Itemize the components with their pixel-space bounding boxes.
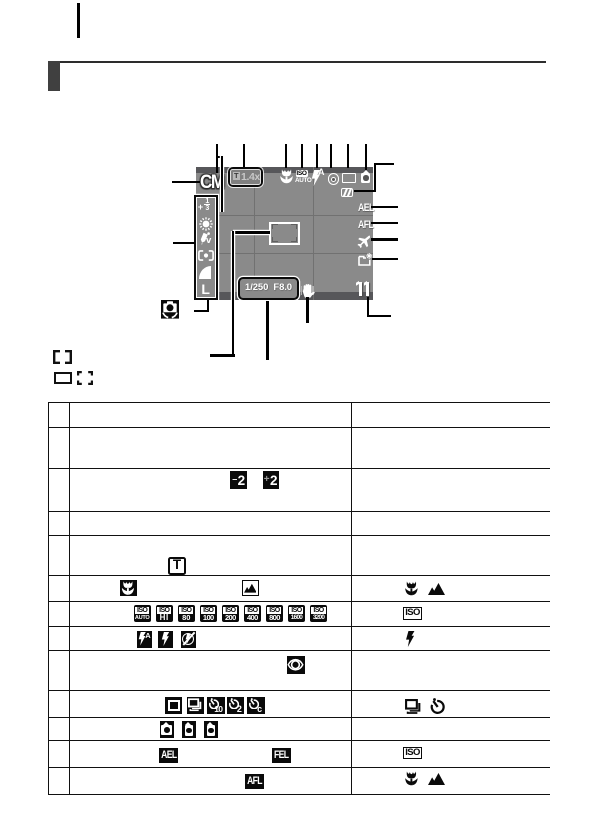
callout battery h2: [374, 163, 394, 165]
callout left-box h: [173, 242, 195, 244]
callout hand v: [306, 297, 309, 323]
ISO 80 box: [178, 605, 195, 622]
header square: [48, 61, 60, 92]
ISO HI box: [156, 605, 173, 622]
orientation box 2: [182, 721, 196, 738]
time zone plane icon: [357, 235, 371, 249]
left function column: [194, 195, 219, 300]
callout top v8: [365, 144, 367, 170]
zoom indicator T1.4x: [228, 167, 263, 188]
callout grid branch v: [221, 156, 223, 212]
callout AEL h: [371, 206, 398, 208]
drive single icon: [342, 173, 356, 183]
table row line 1: [48, 402, 550, 403]
callout shutter v: [266, 301, 268, 360]
flash on box: [158, 631, 173, 649]
mode icon CM: [200, 172, 221, 194]
table left border: [48, 402, 49, 795]
flash auto box: [137, 631, 152, 649]
macro icon: [280, 169, 293, 185]
ISO 800 box: [266, 605, 283, 622]
drive single box: [165, 697, 182, 715]
burst icon right: [405, 699, 422, 714]
callout top v1: [216, 144, 218, 173]
timer 2 box: [227, 697, 244, 715]
flash auto icon: [311, 170, 321, 186]
infinity mountain right row13: [428, 772, 445, 786]
callout AF v: [232, 231, 234, 356]
timer custom box: [247, 697, 265, 715]
callout AF end h: [210, 354, 235, 356]
callout folder h: [372, 258, 398, 260]
callout AFL h: [371, 222, 398, 224]
shots remaining 11: [359, 282, 362, 296]
orientation box 3: [204, 721, 218, 738]
red-eye icon: [328, 173, 340, 185]
shake warning hand: [301, 286, 303, 295]
macro tulip right row6: [405, 581, 418, 597]
callout top v7: [347, 144, 349, 168]
callout 11 h: [367, 315, 391, 317]
auto-rotate icon: [161, 300, 179, 319]
red-eye box: [287, 656, 305, 674]
table row line 11: [48, 717, 550, 718]
text line2 rect icon: [54, 372, 72, 385]
table row line 10: [48, 690, 550, 691]
ISO 400 box: [244, 605, 261, 622]
white balance sun icon: [199, 217, 213, 231]
callout top v5: [316, 144, 318, 168]
compression icon: [199, 266, 211, 279]
header rule: [48, 61, 546, 63]
AFL box: [245, 774, 264, 789]
timer 10 box: [207, 697, 225, 715]
callout grid branch h: [216, 156, 224, 158]
table col line B: [351, 402, 352, 795]
table row line 6: [48, 575, 550, 576]
ISO 100 box: [200, 605, 217, 622]
AEL label: [358, 202, 374, 214]
ISO outline icon row7: [403, 607, 422, 620]
grid lines: [196, 215, 373, 216]
callout top v4: [301, 144, 303, 168]
size L: [201, 281, 210, 297]
macro tulip right row13: [405, 771, 418, 787]
drive burst box: [187, 697, 205, 715]
table row line 4: [48, 511, 550, 512]
plus2 icon: [263, 471, 280, 488]
AF frame: [269, 222, 300, 245]
callout top v6: [330, 144, 332, 168]
bottom strip: [196, 292, 373, 300]
shutter/aperture box: [238, 277, 299, 300]
ISO AUTO icon: [296, 170, 308, 177]
top strip: [196, 167, 373, 173]
flash off box: [181, 631, 196, 649]
camera screen: [196, 167, 373, 300]
FEL box: [272, 748, 291, 763]
table row line 3: [48, 468, 550, 469]
text line AF frame brackets: [53, 350, 72, 364]
text line2 corner brackets icon: [77, 371, 93, 385]
ISO AUTO box: [134, 605, 151, 622]
table row line 2: [48, 427, 550, 428]
infinity box icon: [242, 580, 259, 596]
table col line A: [69, 402, 70, 795]
callout CM h: [172, 181, 200, 183]
table row line 9: [48, 650, 550, 651]
callout battery h1: [354, 190, 376, 192]
callout battery v: [374, 163, 376, 192]
macro box icon: [120, 580, 137, 596]
ISO 200 box: [222, 605, 239, 622]
create folder icon: [358, 253, 373, 266]
ISO outline icon row12: [403, 747, 422, 760]
table row line 13: [48, 767, 550, 768]
battery icon: [341, 188, 353, 197]
table row line 7: [48, 601, 550, 602]
exposure compensation icon: [198, 202, 203, 212]
ISO 3200 box: [310, 605, 327, 622]
metering icon: [198, 250, 214, 261]
callout L-box v: [207, 300, 209, 313]
orientation box 1: [160, 721, 174, 738]
callout top v3: [285, 144, 287, 168]
orientation icon: [363, 170, 369, 173]
AEL box: [159, 748, 178, 763]
callout 11 v: [367, 297, 369, 318]
ISO 1600 box: [288, 605, 305, 622]
callout L-box h: [194, 310, 209, 312]
minus2 icon: [230, 471, 247, 488]
flash bolt icon right: [405, 631, 416, 647]
my colors icon: [198, 232, 211, 245]
table row line 12: [48, 740, 550, 741]
timer icon right: [429, 698, 446, 714]
callout AF h: [233, 231, 270, 233]
table row line 8: [48, 626, 550, 627]
AFL label: [358, 219, 373, 231]
table row line 14: [48, 794, 550, 795]
T teleconverter icon: [168, 557, 186, 575]
infinity mountain right row6: [428, 582, 445, 596]
callout top v2: [243, 144, 245, 167]
header vertical bar: [77, 3, 80, 38]
callout plane h: [371, 238, 398, 240]
table row line 5: [48, 535, 550, 536]
